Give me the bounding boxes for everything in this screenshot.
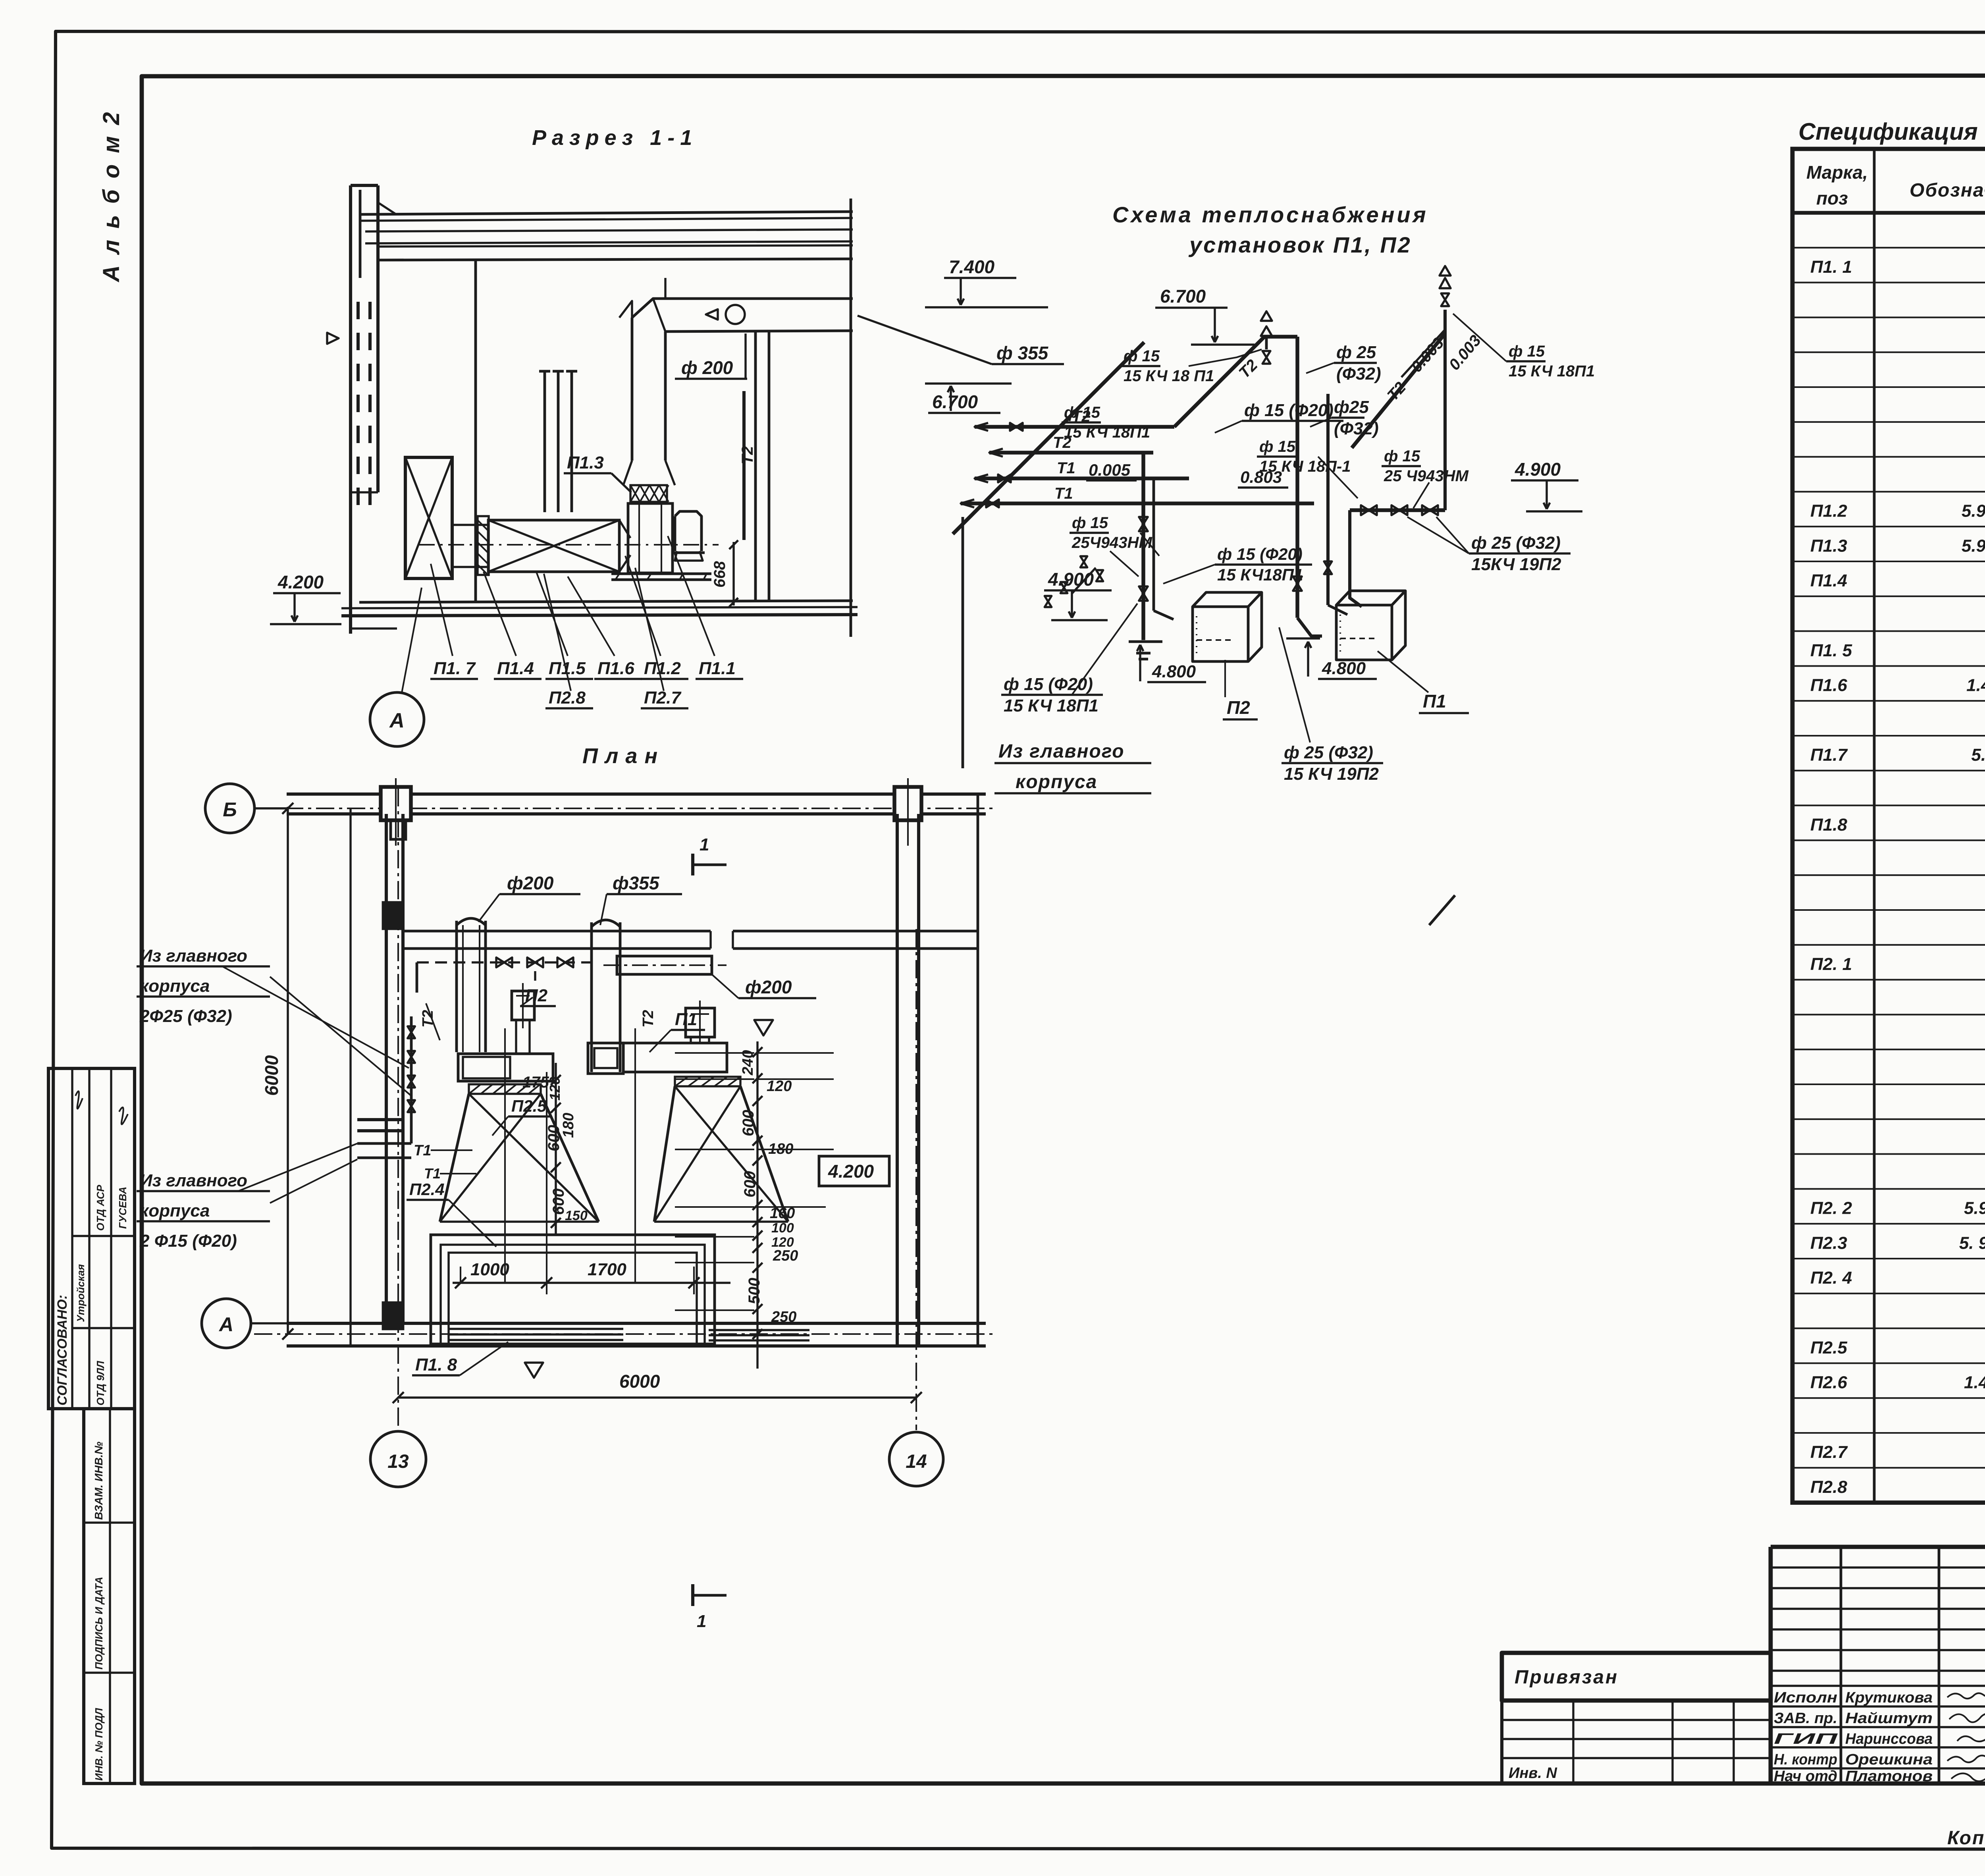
svg-text:П1.6: П1.6: [1810, 676, 1847, 695]
svg-text:ф200: ф200: [507, 873, 554, 893]
svg-text:180: 180: [560, 1113, 577, 1138]
svg-text:4.800: 4.800: [1152, 662, 1196, 681]
schematic left drop pipe: [962, 517, 964, 768]
title block grid: [1771, 1545, 1985, 1549]
plan left pipe loop: [416, 962, 418, 993]
svg-text:А: А: [218, 1313, 233, 1336]
svg-text:120: 120: [767, 1078, 792, 1095]
schematic center drop pipe: [1295, 337, 1299, 618]
svg-text:П2. 4: П2. 4: [1810, 1268, 1852, 1288]
plan triangle marker down: [754, 1020, 773, 1035]
svg-text:П2.7: П2.7: [644, 688, 682, 708]
plan right outer wall: [977, 794, 979, 1346]
section interior wall line: [474, 260, 477, 602]
svg-text:П1. 7: П1. 7: [434, 659, 476, 678]
schematic second drop pipe: [1326, 394, 1330, 605]
plan axis circle Б: [205, 784, 254, 833]
svg-text:корпуса: корпуса: [140, 976, 210, 996]
section duct vent circle symbol: [726, 305, 745, 324]
plan top wall columns: [381, 787, 411, 820]
svg-text:Утройская: Утройская: [75, 1264, 87, 1322]
svg-text:5.904 - 38: 5.904 - 38: [1962, 501, 1985, 521]
plan louver strips: [449, 1328, 623, 1330]
svg-text:(Ф32): (Ф32): [1334, 419, 1379, 438]
svg-text:П1.7: П1.7: [1810, 745, 1848, 765]
svg-text:5.904 -38: 5.904 -38: [1964, 1199, 1985, 1218]
svg-text:6.700: 6.700: [932, 391, 978, 412]
svg-text:ф 15 (Ф20): ф 15 (Ф20): [1244, 401, 1334, 420]
section fan base: [611, 573, 711, 575]
svg-text:План: План: [582, 744, 665, 768]
svg-text:П1.2: П1.2: [1810, 501, 1847, 521]
plan right wall: [896, 814, 899, 1346]
svg-text:А л ь б о м 2: А л ь б о м 2: [98, 110, 124, 283]
svg-text:П2.8: П2.8: [549, 688, 586, 708]
svg-text:600: 600: [740, 1110, 757, 1136]
svg-text:П2.6: П2.6: [1810, 1373, 1847, 1392]
svg-text:668: 668: [711, 561, 728, 588]
svg-text:Копировал: Копировал: [1947, 1828, 1985, 1849]
svg-text:15 КЧ 18П1: 15 КЧ 18П1: [1509, 362, 1595, 380]
plan duct ф355 П1: [590, 922, 593, 1072]
svg-text:500: 500: [746, 1278, 763, 1304]
section fan П1.1: [628, 503, 673, 573]
svg-text:П1.3: П1.3: [1810, 536, 1847, 555]
svg-text:П2: П2: [1227, 697, 1250, 718]
schematic bundle valves: [1010, 423, 1023, 431]
inventory side table: [84, 1409, 135, 1783]
plan fan П1: [623, 1043, 727, 1072]
svg-text:ЗАВ. пр.: ЗАВ. пр.: [1774, 1710, 1837, 1727]
svg-text:ф 15: ф 15: [1072, 514, 1108, 532]
svg-text:ОТД АСР: ОТД АСР: [94, 1185, 106, 1231]
section confuser П1.2: [619, 520, 630, 572]
svg-text:П1. 8: П1. 8: [415, 1355, 457, 1375]
section duct elbow: [632, 299, 853, 318]
svg-text:Спецификация отопительно-вент: Спецификация отопительно-вентиляционных …: [1798, 118, 1985, 145]
plan center dim chain: [555, 1063, 557, 1234]
plan duct ф200 П2: [455, 921, 458, 1052]
svg-text:ф 15: ф 15: [1124, 347, 1160, 365]
section floor: [359, 601, 853, 602]
svg-text:4.900: 4.900: [1515, 459, 1561, 480]
section heater flange hatch: [478, 516, 489, 575]
svg-text:14: 14: [906, 1451, 927, 1472]
svg-text:15 КЧ18П1: 15 КЧ18П1: [1217, 565, 1303, 584]
plan fan П2: [458, 1054, 553, 1081]
svg-text:А: А: [389, 709, 405, 732]
section ceiling slab: [359, 212, 853, 214]
svg-text:ф 15: ф 15: [1509, 343, 1545, 360]
svg-text:Т2: Т2: [640, 1010, 657, 1028]
svg-text:15 КЧ 18П1: 15 КЧ 18П1: [1004, 696, 1098, 715]
plan axis circle А: [202, 1299, 251, 1348]
svg-text:ПОДПИСЬ И ДАТА: ПОДПИСЬ И ДАТА: [93, 1577, 105, 1670]
svg-text:250: 250: [773, 1247, 798, 1264]
svg-text:ф25: ф25: [1334, 397, 1369, 417]
svg-text:ВЗАМ. ИНВ.№: ВЗАМ. ИНВ.№: [93, 1442, 105, 1520]
stray mark: [1429, 895, 1455, 925]
section right columns: [754, 330, 757, 602]
schematic small valves diagonal pair: [1080, 556, 1087, 567]
svg-text:П2.5: П2.5: [1810, 1338, 1847, 1357]
svg-text:ф 355: ф 355: [996, 343, 1049, 363]
svg-text:15 КЧ 18П1: 15 КЧ 18П1: [1064, 424, 1150, 441]
section triangle marker: [327, 333, 339, 344]
schematic box П2: [1193, 607, 1248, 661]
svg-text:(Ф32): (Ф32): [1336, 364, 1381, 384]
svg-text:Из главного: Из главного: [140, 1171, 247, 1190]
svg-text:15КЧ 19П2: 15КЧ 19П2: [1471, 555, 1561, 574]
spec table rows: [1792, 247, 1985, 249]
svg-text:Привязан: Привязан: [1515, 1667, 1619, 1688]
svg-text:ИНВ. № ПОДЛ: ИНВ. № ПОДЛ: [93, 1708, 105, 1781]
svg-text:Платонов: Платонов: [1845, 1768, 1933, 1785]
section hanger rods: [543, 371, 546, 512]
plan bottom wall: [287, 1322, 986, 1325]
svg-text:15 КЧ 19П2: 15 КЧ 19П2: [1284, 764, 1379, 784]
schematic elevation 4.800 left: [1139, 645, 1141, 681]
svg-text:П1.4: П1.4: [1810, 571, 1847, 590]
svg-text:ф 15: ф 15: [1384, 447, 1420, 465]
svg-text:25 Ч943НМ: 25 Ч943НМ: [1384, 467, 1469, 485]
plan cone П2: [440, 1094, 599, 1222]
privyazan box: [1502, 1653, 1771, 1701]
svg-text:25Ч943НМ: 25Ч943НМ: [1072, 534, 1152, 551]
svg-text:1: 1: [697, 1612, 706, 1631]
svg-text:П1.8: П1.8: [1810, 815, 1847, 835]
svg-text:Т1: Т1: [414, 1142, 431, 1159]
svg-text:П2.4: П2.4: [409, 1180, 445, 1199]
plan axis circles 13 14: [370, 1431, 426, 1487]
svg-text:П2.3: П2.3: [1810, 1233, 1847, 1253]
plan horizontal duct ф200 right: [617, 956, 712, 974]
section axis circle A: [370, 692, 424, 746]
svg-text:Б: Б: [223, 798, 237, 821]
svg-text:175: 175: [522, 1074, 549, 1091]
section heater КВС П1.5: [488, 520, 619, 572]
svg-text:ф 15: ф 15: [1064, 404, 1100, 421]
svg-text:ф355: ф355: [613, 873, 660, 893]
svg-text:Крутикова: Крутикова: [1845, 1689, 1933, 1706]
svg-text:0.005: 0.005: [1089, 461, 1131, 479]
svg-text:Найштут: Найштут: [1845, 1710, 1933, 1727]
svg-text:ф 25 (Ф32): ф 25 (Ф32): [1284, 743, 1373, 762]
svg-text:Разрез 1-1: Разрез 1-1: [532, 126, 698, 150]
svg-text:Обозначение: Обозначение: [1910, 180, 1985, 201]
svg-text:Схема теплоснабжения: Схема теплоснабжения: [1112, 202, 1428, 227]
plan base rectangles: [431, 1235, 715, 1344]
section axis line: [419, 544, 719, 546]
svg-text:5. 904 - 38: 5. 904 - 38: [1959, 1233, 1985, 1253]
section dim 668: [732, 542, 734, 605]
svg-text:5.904 - 38: 5.904 - 38: [1962, 536, 1985, 555]
svg-text:Н. контр: Н. контр: [1774, 1751, 1837, 1768]
section duct vertical ф200: [631, 318, 634, 461]
svg-text:2 Ф15 (Ф20): 2 Ф15 (Ф20): [139, 1231, 237, 1251]
svg-text:П2.7: П2.7: [1810, 1442, 1848, 1462]
svg-text:0.003: 0.003: [1445, 332, 1484, 374]
svg-text:Т1: Т1: [1057, 459, 1075, 477]
section fan motor: [672, 511, 705, 553]
plan triangle marker bottom: [525, 1363, 543, 1378]
svg-text:П2.5: П2.5: [511, 1097, 547, 1115]
svg-text:корпуса: корпуса: [1016, 771, 1097, 792]
plan interior wall: [403, 930, 711, 933]
left lower table: [1502, 1701, 1771, 1783]
svg-text:корпуса: корпуса: [140, 1201, 210, 1220]
plan elevation box 4.200: [819, 1156, 889, 1186]
schematic right horizontal valves row: [1350, 508, 1445, 512]
svg-text:0.803: 0.803: [1240, 468, 1282, 486]
section door П1.7: [405, 457, 452, 578]
plan dim extension lines: [675, 1052, 754, 1054]
section column insulation dashes: [357, 302, 360, 319]
plan top wall: [287, 792, 986, 796]
svg-text:7.400: 7.400: [949, 256, 995, 277]
svg-text:П1. 1: П1. 1: [1810, 257, 1852, 277]
schematic valve stack top center: [1265, 337, 1268, 349]
svg-text:Из главного: Из главного: [998, 741, 1125, 762]
schematic left diagonal riser: [953, 342, 1144, 534]
svg-text:6000: 6000: [261, 1055, 282, 1096]
svg-text:4.800: 4.800: [1322, 659, 1366, 678]
svg-text:100: 100: [771, 1220, 794, 1236]
section duct transition: [623, 461, 675, 485]
svg-text:ОТД 9ЛЛ: ОТД 9ЛЛ: [94, 1361, 106, 1406]
svg-text:1: 1: [700, 835, 709, 854]
svg-text:ф 25: ф 25: [1336, 343, 1376, 362]
svg-text:П2.8: П2.8: [1810, 1477, 1847, 1497]
svg-text:4.200: 4.200: [278, 572, 324, 592]
plan cone П1: [654, 1086, 788, 1222]
plan valve row dashed: [417, 961, 592, 963]
svg-text:П1.6: П1.6: [597, 659, 634, 678]
svg-text:ф 15 (Ф20): ф 15 (Ф20): [1217, 545, 1303, 563]
svg-text:ф 25 (Ф32): ф 25 (Ф32): [1471, 533, 1561, 553]
svg-text:Т1: Т1: [424, 1165, 441, 1182]
svg-text:4.200: 4.200: [828, 1161, 874, 1182]
svg-text:СОГЛАСОВАНО:: СОГЛАСОВАНО:: [55, 1295, 70, 1406]
svg-text:600: 600: [741, 1171, 759, 1197]
svg-text:2Ф25 (Ф32): 2Ф25 (Ф32): [139, 1006, 232, 1026]
svg-text:П1.2: П1.2: [644, 659, 681, 678]
spec table frame: [1792, 149, 1985, 1503]
section elevation 6.700: [925, 382, 1012, 384]
svg-text:установок П1, П2: установок П1, П2: [1188, 232, 1412, 257]
schematic center riser to 6.700: [1174, 337, 1297, 427]
section inlet duct: [452, 524, 488, 526]
svg-text:П2. 2: П2. 2: [1810, 1199, 1852, 1218]
svg-text:Исполн: Исполн: [1774, 1689, 1837, 1706]
schematic right riser top: [1443, 310, 1447, 334]
plan section cut marks 1-1: [691, 854, 694, 875]
section pipe T2: [742, 391, 746, 540]
approval side table: [48, 1068, 135, 1409]
plan right dim chain: [756, 1041, 758, 1369]
plan left pipes stubs: [357, 1118, 403, 1121]
section right wall: [850, 199, 852, 637]
svg-text:Т1: Т1: [1054, 485, 1073, 502]
signatures: [1947, 1693, 1985, 1699]
svg-text:1.494 -25: 1.494 -25: [1964, 1373, 1985, 1392]
svg-text:1000: 1000: [470, 1260, 509, 1279]
svg-text:П2: П2: [525, 986, 548, 1005]
svg-text:ф 200: ф 200: [681, 357, 733, 378]
section left column wall: [349, 185, 352, 634]
schematic pipe bundle T2 T2 T1 T1: [975, 425, 1174, 429]
svg-text:Инв. N: Инв. N: [1509, 1765, 1557, 1782]
svg-text:Марка,: Марка,: [1806, 162, 1868, 183]
svg-text:П1: П1: [1423, 691, 1446, 711]
schematic box П1: [1336, 605, 1392, 660]
svg-text:ф200: ф200: [745, 977, 792, 997]
svg-text:Из главного: Из главного: [140, 946, 247, 966]
svg-text:Наринссова: Наринссова: [1845, 1731, 1933, 1747]
plan left wall: [385, 814, 388, 1323]
plan left dimension line: [287, 807, 289, 1334]
svg-text:5.904-4: 5.904-4: [1971, 745, 1985, 765]
svg-text:13: 13: [387, 1451, 409, 1472]
schematic right diagonal: [1352, 334, 1445, 448]
svg-text:1700: 1700: [588, 1260, 626, 1279]
svg-text:4.900: 4.900: [1048, 569, 1094, 590]
svg-text:1.494-25: 1.494-25: [1966, 676, 1985, 695]
svg-text:150: 150: [565, 1208, 588, 1223]
svg-text:250: 250: [771, 1309, 796, 1325]
section flex insert П1.3 crosshatch: [630, 485, 667, 502]
plan flex П1: [675, 1077, 740, 1086]
svg-text:П2. 1: П2. 1: [1810, 954, 1852, 974]
schematic elevation 4.800 right: [1286, 637, 1320, 639]
svg-text:ф 15: ф 15: [1259, 438, 1296, 455]
svg-text:15 КЧ 18 П1: 15 КЧ 18 П1: [1124, 367, 1214, 385]
section label leaders: [431, 564, 453, 656]
svg-text:П1.1: П1.1: [699, 659, 736, 678]
svg-text:П1. 5: П1. 5: [1810, 641, 1852, 660]
plan flex П2: [469, 1084, 541, 1094]
svg-text:поз: поз: [1816, 188, 1848, 208]
svg-text:Нач отд: Нач отд: [1774, 1768, 1837, 1785]
svg-text:6000: 6000: [619, 1371, 660, 1392]
svg-text:ГУСЕВА: ГУСЕВА: [117, 1187, 129, 1229]
svg-text:ГИП: ГИП: [1774, 1731, 1838, 1747]
svg-text:Т2: Т2: [739, 446, 756, 465]
svg-text:П1: П1: [675, 1010, 697, 1029]
svg-text:Орешкина: Орешкина: [1845, 1751, 1933, 1768]
svg-text:6.700: 6.700: [1160, 286, 1206, 307]
svg-text:240: 240: [740, 1050, 756, 1076]
svg-text:П1.4: П1.4: [497, 659, 534, 678]
plan left axis line: [349, 808, 351, 1348]
svg-text:120: 120: [547, 1077, 563, 1101]
schematic mid vertical pipe: [1141, 453, 1145, 640]
plan bottom dimension 6000: [398, 1396, 916, 1398]
